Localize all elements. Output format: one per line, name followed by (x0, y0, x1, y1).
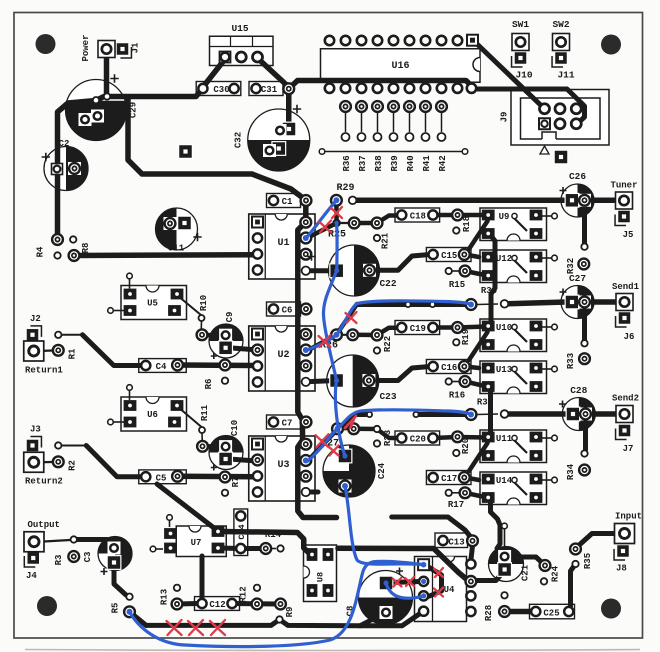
wire R35 to C25 (571, 564, 576, 606)
label U8 (316, 572, 326, 582)
svg-text:Power: Power (81, 34, 91, 61)
svg-text:C25: C25 (543, 608, 559, 618)
svg-text:C29: C29 (129, 102, 139, 118)
wire stub to C24 (341, 447, 345, 454)
optocoupler U11 pads (482, 432, 543, 461)
wire C19 to R19 (433, 327, 486, 328)
capacitor C13 pads (438, 535, 478, 546)
svg-text:J10: J10 (515, 70, 532, 81)
blue wire R25 to C22 (335, 223, 339, 271)
wire jumper row 2b (419, 412, 471, 417)
resistor R12 pads (252, 585, 263, 610)
capacitor C2 pads (52, 162, 82, 175)
via row2 b (413, 412, 418, 417)
capacitor C24 pads (338, 449, 353, 493)
resistor R13 pads (172, 585, 183, 610)
capacitor C25 body (530, 604, 575, 619)
label R14 (265, 530, 282, 540)
svg-text:R12: R12 (239, 586, 249, 602)
ic U1 body (249, 214, 315, 279)
wire C10 to U3 pin2 (226, 459, 258, 461)
ic U3 pads (252, 439, 263, 497)
label Return2 (25, 477, 63, 487)
ring row1 jumper (466, 299, 477, 310)
ic U8 body (304, 545, 337, 602)
capacitor C11 pads (164, 216, 192, 231)
blue wire C22 to C23 (323, 271, 336, 381)
svg-text:R29: R29 (336, 183, 354, 194)
svg-text:SW1: SW1 (512, 19, 529, 30)
optocoupler U13 pads (482, 363, 543, 392)
ic U6 body (108, 385, 187, 431)
wire R4 rail to U1 (74, 252, 256, 258)
wire U16 to J9 pin1 (477, 44, 545, 109)
via row2 a (367, 412, 372, 417)
label Send1 (612, 282, 640, 292)
wire ring to C28 (477, 413, 566, 416)
R27 junction (332, 423, 343, 434)
wire C16 to U13 (465, 367, 479, 369)
svg-text:R28: R28 (484, 605, 494, 621)
capacitor C4 body (139, 359, 187, 373)
label R10 (199, 295, 209, 311)
mounting hole bottom-right (601, 599, 621, 619)
wire R25 to R21 (337, 222, 377, 224)
svg-text:C17: C17 (441, 474, 457, 484)
svg-text:C3: C3 (83, 552, 93, 563)
label R12 (239, 586, 249, 602)
resistor R18 pads (452, 210, 463, 234)
R26 junction (331, 329, 342, 340)
wire C27 to R33 (582, 308, 587, 340)
svg-text:U2: U2 (277, 350, 289, 361)
svg-text:R35: R35 (583, 553, 593, 569)
ic U7 body (150, 515, 226, 557)
svg-text:C30: C30 (213, 85, 229, 95)
capacitor C26 pads (565, 193, 591, 208)
wire Input to R35 (577, 534, 618, 548)
capacitor C9 pads (218, 329, 233, 356)
label C14 (237, 524, 247, 539)
wire C29 to C32 and U1 (128, 99, 306, 222)
capacitor C19 pads (397, 323, 437, 332)
resistor R34 pads (579, 450, 590, 475)
label R11 (200, 404, 210, 421)
resistor R1 pads (53, 332, 64, 356)
red X cut 7 (329, 446, 339, 456)
wire C15 to U12 (465, 255, 479, 258)
red X U4 c (434, 568, 443, 577)
svg-text:U5: U5 (147, 299, 158, 309)
svg-text:C31: C31 (261, 85, 278, 95)
wire R13 to C12 (177, 601, 198, 607)
ic U15 body (210, 36, 274, 65)
capacitor C18 body (395, 208, 440, 222)
wire R30 vertical (489, 233, 495, 322)
wire U4 to C21 (476, 570, 505, 581)
red X bottom 1 (167, 620, 182, 635)
J9 pins (539, 104, 581, 130)
wire R3 to C3 (74, 540, 113, 546)
via row1 b (430, 302, 435, 307)
svg-text:C15: C15 (441, 251, 457, 261)
svg-text:J7: J7 (623, 444, 634, 454)
svg-text:R34: R34 (566, 463, 576, 480)
capacitor C8 pads (379, 576, 394, 619)
U1 right pads (300, 217, 311, 275)
capacitor C23 body (327, 355, 379, 407)
wire C26 to R32 (582, 206, 587, 243)
label C23 (379, 391, 396, 402)
labels R36-R42 (342, 155, 448, 172)
svg-text:C10: C10 (230, 420, 240, 436)
red X U4 d (434, 588, 443, 597)
svg-text:Return2: Return2 (25, 477, 63, 487)
wire power to C29 (107, 52, 203, 97)
optocoupler U11 body (480, 430, 557, 463)
resistor R32 pads (578, 244, 589, 270)
svg-text:R40: R40 (406, 155, 416, 171)
pad row1 c27 (501, 300, 509, 308)
label R23 (383, 430, 393, 446)
resistor R29 pads (331, 195, 356, 206)
red X cut 1 (331, 207, 342, 218)
svg-text:J9: J9 (500, 112, 510, 123)
label Return1 (25, 366, 63, 376)
label U14 (496, 476, 513, 486)
label U10 (496, 323, 512, 333)
wire C27 to Send1 (589, 299, 618, 305)
svg-text:C24: C24 (377, 462, 387, 479)
pad row2 c28 (501, 410, 509, 418)
svg-text:U13: U13 (496, 365, 512, 375)
svg-text:R16: R16 (449, 391, 465, 401)
svg-text:C7: C7 (282, 418, 293, 428)
connector J2 (27, 326, 42, 341)
wire C23 to C16 (369, 367, 430, 381)
label U16 (391, 61, 409, 72)
wire C22 to C15 (370, 255, 431, 271)
wire R25 to U1 pin (308, 223, 337, 238)
label J6 (624, 332, 635, 342)
connector J8 (614, 545, 629, 560)
label U1 (277, 238, 289, 249)
connector Send1 (616, 294, 633, 311)
label J10 (515, 70, 532, 81)
resistor R21 pads (349, 218, 383, 242)
capacitor C18 pads (397, 210, 437, 219)
resistor R24 pads (540, 560, 551, 585)
label R1 (68, 348, 78, 359)
svg-text:J6: J6 (624, 332, 635, 342)
wire U1 to C22 (306, 268, 337, 273)
via row1 a (405, 302, 410, 307)
label R16 (449, 391, 465, 401)
capacitor C12 pads (197, 599, 236, 608)
svg-text:U1: U1 (277, 238, 289, 249)
svg-text:C32: C32 (234, 132, 244, 148)
wire C4 to R6 U2 (178, 362, 257, 368)
label U13 (496, 365, 512, 375)
capacitor C21 body (489, 523, 524, 581)
connector J5 (615, 211, 630, 226)
svg-text:U3: U3 (277, 460, 289, 471)
switch SW2 pad (553, 34, 570, 51)
capacitor C31 body (249, 82, 283, 96)
wire U3 pin4 stub (306, 490, 318, 495)
label R28 (484, 605, 494, 621)
label C20 (410, 434, 426, 444)
ring row2 jumper (466, 409, 477, 420)
connector J7 (616, 425, 631, 440)
wire U14 down (491, 500, 501, 549)
svg-text:C9: C9 (225, 312, 235, 323)
svg-text:R30: R30 (481, 286, 497, 296)
label C13 (448, 537, 464, 547)
node via A (93, 97, 99, 103)
capacitor C27 body (561, 286, 594, 319)
resistor ladder bottom pads (342, 133, 446, 141)
svg-text:R38: R38 (374, 155, 384, 171)
svg-text:Output: Output (28, 520, 60, 530)
label C12 (209, 600, 225, 610)
capacitor C4 pads (141, 360, 183, 371)
label R31 (477, 398, 494, 408)
svg-text:R3: R3 (54, 555, 64, 566)
wire R1 to C4 (61, 335, 140, 366)
connector J1 (117, 43, 132, 58)
svg-text:C1: C1 (282, 197, 293, 207)
capacitor C29 body (66, 80, 127, 141)
label R22 (383, 336, 393, 352)
label SW2 (552, 19, 569, 30)
svg-text:C5: C5 (156, 473, 167, 483)
resistor R8 pad (70, 236, 76, 242)
wire U6 to R11 (178, 407, 202, 442)
label R13 (160, 589, 170, 605)
capacitor C32 body (248, 109, 310, 171)
U16 pin square pad (467, 35, 478, 46)
svg-text:J8: J8 (616, 564, 627, 574)
capacitor C23 pads (329, 373, 375, 388)
label U4 (444, 585, 455, 595)
label J7 (623, 444, 634, 454)
capacitor C25 pads (531, 607, 573, 616)
label C22 (307, 252, 397, 289)
blue wire R27 to U3 (307, 429, 338, 462)
optocoupler U13 body (480, 361, 557, 394)
wire R21 to C18 (377, 216, 399, 224)
capacitor C10 pads (218, 440, 233, 466)
capacitor C16 body (426, 360, 471, 374)
resistor R20 pads (452, 431, 463, 456)
blue wire R26 to U2 (307, 335, 337, 350)
wire branch to C8 (360, 614, 384, 626)
wire R26 row (337, 328, 400, 335)
capacitor C7 pads (269, 417, 312, 428)
svg-text:Return1: Return1 (25, 366, 63, 376)
label R33 (566, 353, 576, 369)
label J4 (26, 571, 37, 581)
label J5 (623, 230, 634, 240)
label R3 (54, 555, 64, 566)
ic U5 body (108, 273, 187, 319)
capacitor C2 body (44, 147, 88, 191)
mounting hole bottom-left (37, 596, 57, 616)
label C18 (410, 211, 426, 221)
wire U7 top to rail (221, 532, 309, 554)
wire C3 to R5 (114, 566, 126, 595)
mounting hole top-left (36, 34, 56, 54)
label C8 (346, 568, 404, 617)
label U15 (231, 23, 248, 34)
ic U3 body (249, 436, 315, 501)
svg-text:J11: J11 (557, 70, 574, 81)
ic U4 left pads (418, 559, 429, 616)
label R25 (328, 230, 346, 241)
label R27 (321, 439, 339, 450)
resistor R2 pads (53, 442, 64, 467)
svg-text:Send2: Send2 (612, 394, 639, 404)
capacitor C30 body (196, 82, 241, 96)
capacitor C6 pads (269, 304, 312, 315)
node via B (104, 93, 110, 99)
svg-text:C2: C2 (59, 139, 70, 149)
label Send2 (612, 394, 639, 404)
U2 right pads (300, 329, 311, 386)
label C30 (213, 85, 229, 95)
capacitor C9 body (209, 324, 243, 358)
capacitor C5 body (139, 470, 187, 484)
wire U5 to R10 (178, 296, 202, 331)
svg-text:R15: R15 (449, 280, 465, 290)
label R9 (285, 607, 295, 618)
svg-text:U10: U10 (496, 323, 512, 333)
wire R18 to U9 (458, 213, 487, 218)
svg-text:R7: R7 (231, 477, 241, 488)
label J11 (557, 70, 574, 81)
capacitor C26 body (561, 184, 594, 217)
wire Output to R3 (44, 540, 70, 542)
svg-text:Send1: Send1 (612, 282, 640, 292)
red X cut 6 (316, 434, 329, 447)
capacitor C5 pads (141, 471, 183, 482)
connector J3 (27, 437, 42, 452)
svg-text:C12: C12 (209, 600, 225, 610)
optocoupler U9 pads (482, 210, 543, 239)
wire U2 to C23 (306, 381, 337, 382)
svg-text:R8: R8 (81, 243, 91, 254)
svg-text:U7: U7 (191, 538, 202, 548)
capacitor C32 pads (263, 122, 296, 157)
label R8 (81, 243, 91, 254)
capacitor C15 body (426, 248, 471, 262)
wire diag row2 to U3 pin (308, 415, 357, 462)
optocoupler U10 body (480, 319, 557, 352)
svg-text:R24: R24 (551, 565, 561, 582)
label Power (81, 34, 91, 61)
wire bottom rail (146, 613, 421, 626)
label C26 (560, 171, 587, 194)
svg-text:R23: R23 (383, 430, 393, 446)
capacitor C3 pads (107, 542, 122, 570)
svg-text:R4: R4 (36, 246, 46, 257)
svg-text:C4: C4 (156, 362, 167, 372)
capacitor C7 body (267, 415, 301, 429)
ic U1 pads (252, 217, 263, 275)
wire rail U8 to C21 (338, 548, 471, 581)
capacitor C31 pads (251, 83, 294, 94)
wire R2 to C5 (61, 446, 140, 477)
wire R29-R25 link (334, 203, 339, 222)
label C17 (441, 474, 457, 484)
blue wire C24 to U4 (345, 486, 422, 565)
label R18 (462, 216, 472, 232)
wire C17 to U14 (465, 478, 479, 481)
J9 triangle marker (540, 146, 549, 154)
resistor R22 pads (347, 329, 382, 353)
svg-text:R32: R32 (566, 258, 576, 274)
red X cut 3 (319, 335, 331, 347)
blue wire R5 bottom sweep (130, 561, 423, 646)
svg-text:R31: R31 (477, 398, 494, 408)
label Tuner (610, 181, 637, 191)
wire C31 to U16 rail (289, 81, 472, 89)
ic U2 pads (252, 329, 263, 387)
svg-text:Tuner: Tuner (610, 181, 637, 191)
optocoupler U9 body (480, 208, 557, 241)
label J2 (30, 314, 41, 324)
svg-text:U15: U15 (231, 23, 248, 34)
connector Input (615, 524, 635, 544)
svg-text:J5: J5 (623, 230, 634, 240)
label R4 (36, 246, 46, 257)
wire ladder bus (319, 149, 468, 155)
wire U11 diag (469, 443, 488, 471)
resistor R17 pads (446, 487, 471, 498)
ic U5 pads (124, 289, 184, 316)
label U12 (496, 254, 512, 264)
svg-text:R18: R18 (462, 216, 472, 232)
capacitor C17 body (426, 471, 471, 485)
wire C12 to R12 R9 (232, 601, 281, 607)
svg-text:R5: R5 (111, 603, 121, 614)
capacitor C20 pads (397, 433, 437, 442)
resistor R23 pads (348, 423, 380, 446)
resistor R16 pads (446, 376, 471, 387)
label C2 (59, 139, 70, 149)
connector Return1 (24, 341, 44, 361)
svg-text:R11: R11 (200, 404, 210, 421)
resistor R7 pads (220, 472, 231, 496)
wire C13 to U4 (471, 546, 473, 560)
label R21 (381, 232, 391, 249)
capacitor C1 body (267, 194, 301, 208)
label R6 (204, 379, 214, 390)
label plus C2 (42, 153, 50, 161)
connector J10 (512, 52, 527, 67)
resistor ladder rings (340, 101, 447, 112)
wire U10 diag (469, 332, 488, 360)
label C6 (282, 305, 293, 315)
wire diag to U7 (157, 484, 216, 530)
svg-text:R33: R33 (566, 353, 576, 369)
label R29 (336, 183, 354, 194)
capacitor C1 pads (269, 195, 312, 206)
wire C29 to left rail (58, 97, 105, 241)
wire U13-U11 vertical (488, 388, 493, 432)
wire C8 to U4 (391, 582, 420, 583)
